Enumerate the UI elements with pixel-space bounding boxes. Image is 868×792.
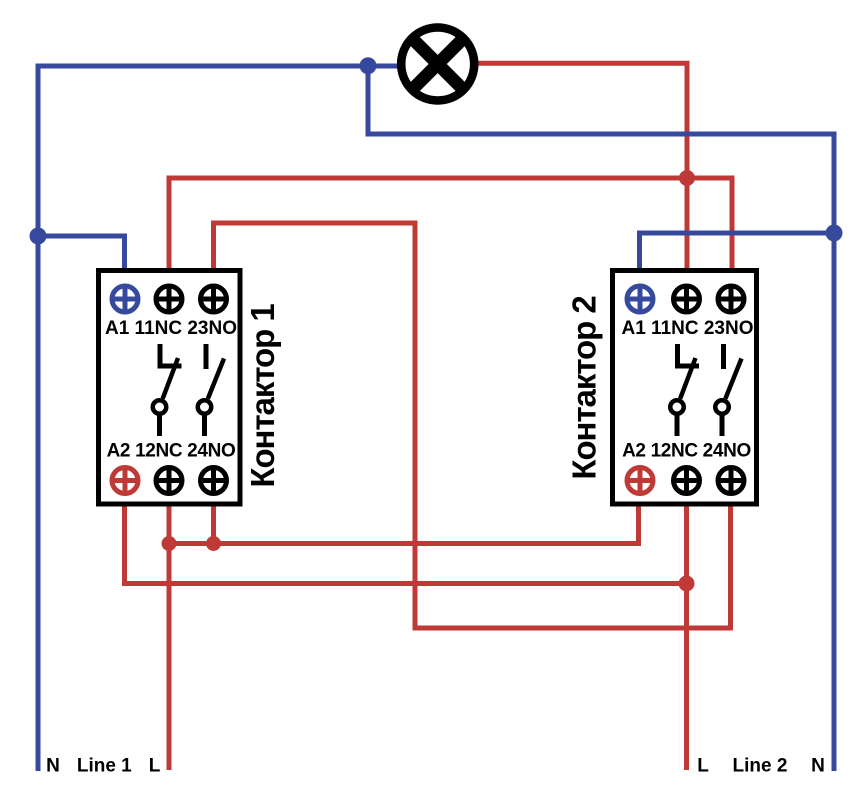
svg-text:A1 11NC 23NO: A1 11NC 23NO — [621, 318, 753, 339]
terminal 24NO contactor 2 — [718, 468, 744, 494]
switch NC contactor 1 — [153, 344, 182, 436]
svg-text:Line 1: Line 1 — [77, 756, 132, 777]
svg-text:L: L — [697, 756, 709, 777]
svg-text:A2 12NC 24NO: A2 12NC 24NO — [622, 441, 751, 462]
terminal 12NC contactor 2 — [674, 468, 700, 494]
terminal 23NO contactor 2 — [718, 286, 744, 312]
node: blue junction left rail — [30, 228, 47, 245]
wire: blue branch to A1 of contactor 2 — [640, 233, 835, 268]
terminal 23NO contactor 1 — [201, 286, 227, 312]
node: red junction at lamp feed split — [679, 170, 695, 186]
contactor K2 box — [613, 271, 757, 505]
terminal 24NO contactor 1 — [201, 468, 227, 494]
terminal 12NC contactor 1 — [156, 468, 182, 494]
contactor K1 box — [99, 271, 241, 505]
svg-text:Контактор 1: Контактор 1 — [244, 304, 281, 488]
terminal A1 contactor 2 — [627, 286, 653, 312]
switch NO contactor 1 — [198, 344, 224, 436]
svg-text:N: N — [46, 756, 60, 777]
terminal 11NC contactor 2 — [674, 286, 700, 312]
wire: red from 12NC of contactor 1 down to L terminal Line 1 — [167, 506, 172, 770]
wire: red from lamp right to 11NC of contactor 2 — [478, 63, 687, 268]
wire: red junction row to A2 of contactor 2 — [169, 506, 639, 544]
svg-text:Line 2: Line 2 — [733, 756, 788, 777]
node: red junction on Line 2 L wire — [679, 576, 695, 592]
svg-text:Контактор 2: Контактор 2 — [566, 296, 603, 480]
wire: blue from lamp junction down right to N rail Line 2 — [368, 66, 834, 771]
node: red junction 24NO contactor 1 — [206, 536, 221, 551]
switch NO contactor 2 — [715, 344, 741, 436]
svg-text:A1 11NC 23NO: A1 11NC 23NO — [105, 318, 237, 339]
node: red junction 12NC contactor 1 — [162, 536, 177, 551]
terminal A2 contactor 1 — [112, 468, 138, 494]
svg-text:L: L — [149, 756, 161, 777]
node: blue junction right rail — [826, 225, 843, 242]
terminal 11NC contactor 1 — [156, 286, 182, 312]
node: blue junction at lamp — [360, 57, 377, 74]
lamp EL1 — [401, 28, 474, 101]
switch NC contactor 2 — [670, 344, 699, 436]
wire: red from 12NC of contactor 2 down to L terminal Line 2 — [684, 506, 689, 770]
svg-text:N: N — [811, 756, 825, 777]
wire: red from A2 of contactor 1 to junction on line L2 — [125, 506, 687, 584]
wire: red from 24NO of contactor 1 down to junction — [211, 506, 216, 544]
wire: blue branch to A1 of contactor 1 — [38, 236, 125, 268]
wire: red from 23NO of contactor 1 down around to 24NO of contactor 2 — [214, 223, 731, 628]
wire: red from 11NC of contactor 1 up over to 23NO of contactor 2 — [169, 178, 732, 268]
svg-text:A2 12NC 24NO: A2 12NC 24NO — [107, 441, 236, 462]
terminal A1 contactor 1 — [112, 286, 138, 312]
terminal A2 contactor 2 — [627, 468, 653, 494]
wire: blue N from lamp left to left rail down to N Line 1 — [38, 66, 399, 771]
